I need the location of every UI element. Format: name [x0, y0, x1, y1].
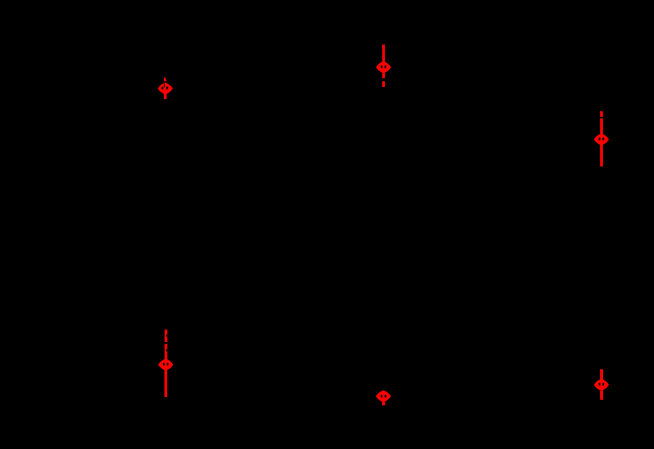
wire below PR2	[382, 72, 385, 78]
wire stub below PR1	[164, 93, 167, 99]
wire below PR4	[164, 370, 167, 397]
wire dash above PR3	[600, 111, 603, 117]
wire dash below PR2	[382, 81, 385, 87]
probe PR1 arrow tip	[164, 77, 167, 82]
wire above PR6	[600, 369, 603, 385]
wire below PR3	[600, 145, 603, 167]
probe PR1 diamond body	[158, 83, 173, 95]
wire above PR2	[382, 45, 385, 68]
probe PR5 diamond body	[376, 390, 391, 402]
probe PR2 diamond body	[376, 61, 391, 73]
probe PR4 diamond body	[158, 359, 173, 371]
wire above PR3	[600, 118, 603, 139]
wire dash above PR4	[165, 330, 168, 343]
wire below PR6	[600, 391, 603, 400]
probe PR6 diamond body	[594, 379, 609, 391]
wire above PR4	[165, 344, 168, 365]
probe PR3 diamond body	[594, 133, 609, 145]
wire stub below PR5	[382, 402, 385, 405]
